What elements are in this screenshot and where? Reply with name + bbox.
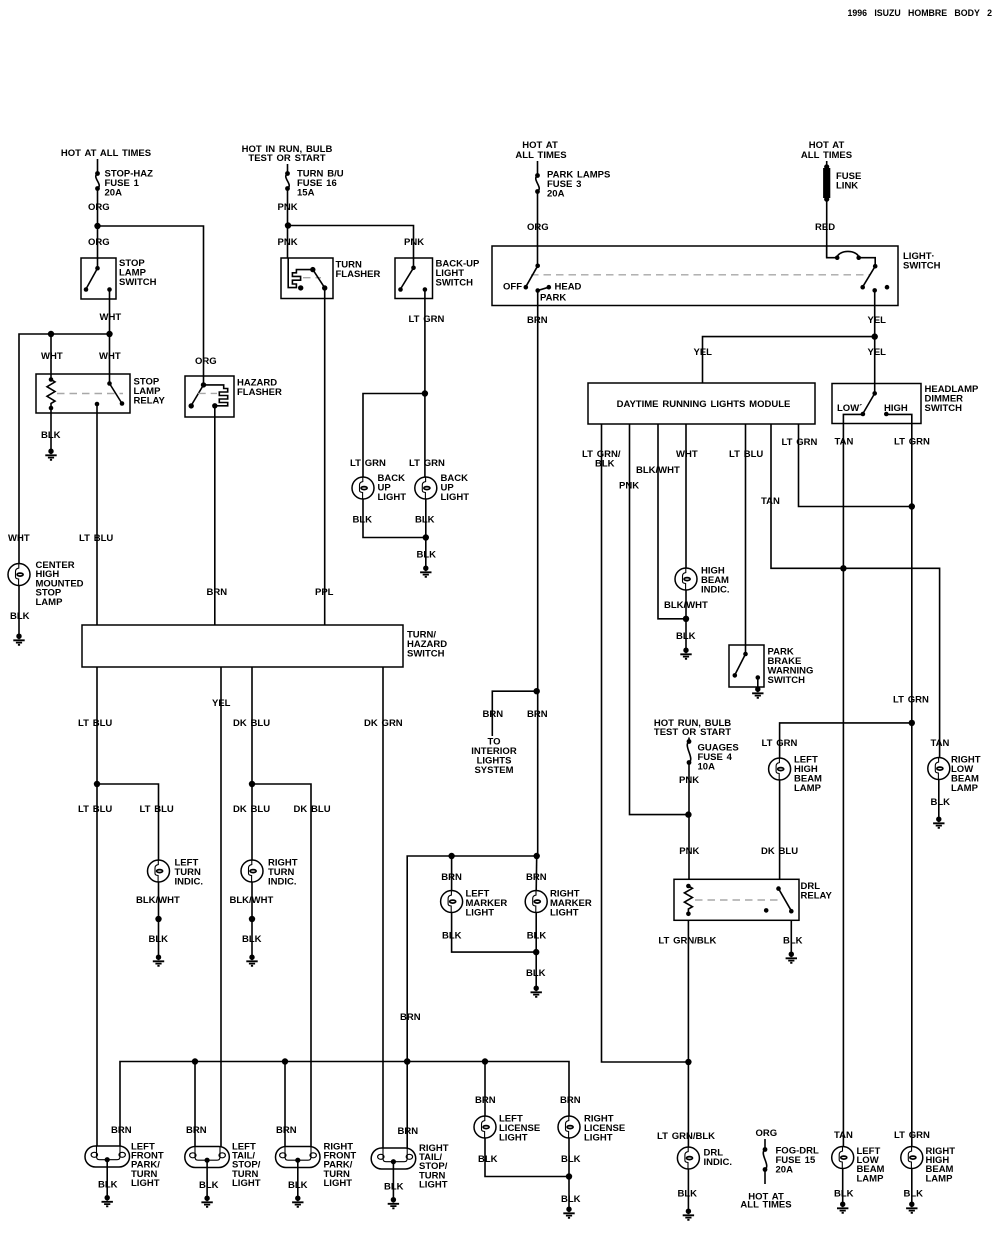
svg-text:ALL TIMES: ALL TIMES <box>801 150 852 161</box>
wire ORG <box>97 189 99 269</box>
wire BLK DRL indicator <box>687 1169 689 1209</box>
svg-text:BRN: BRN <box>526 872 547 883</box>
node junction LT GRN (high beam tee) <box>909 720 915 726</box>
svg-text:DK BLU: DK BLU <box>233 804 270 815</box>
svg-text:LT GRN: LT GRN <box>762 738 798 749</box>
svg-text:1996 ISUZU HOMBRE BODY 2: 1996 ISUZU HOMBRE BODY 2 <box>847 8 992 18</box>
svg-text:OFF: OFF <box>503 282 522 293</box>
svg-text:BLK: BLK <box>288 1180 308 1191</box>
svg-text:ORG: ORG <box>88 237 110 248</box>
svg-text:BLK: BLK <box>561 1194 581 1205</box>
svg-text:SWITCH: SWITCH <box>407 649 445 660</box>
svg-text:LIGHT: LIGHT <box>324 1178 353 1189</box>
svg-text:BRN: BRN <box>527 709 548 720</box>
relay K1 stop lamp relay <box>36 374 130 413</box>
svg-text:RELAY: RELAY <box>801 891 833 902</box>
svg-text:BLK: BLK <box>417 550 437 561</box>
wire BRN right marker <box>535 856 538 891</box>
svg-text:BRN: BRN <box>527 315 548 326</box>
svg-text:BLK: BLK <box>41 430 61 441</box>
wire DK GRN <box>382 667 384 1148</box>
svg-text:LT GRN: LT GRN <box>893 695 929 706</box>
wire WHT <box>109 290 111 335</box>
svg-text:FLASHER: FLASHER <box>336 269 381 280</box>
svg-text:BRN: BRN <box>276 1125 297 1136</box>
svg-text:DK BLU: DK BLU <box>761 846 798 857</box>
svg-text:BLK: BLK <box>10 611 30 622</box>
svg-text:HEAD: HEAD <box>555 282 582 293</box>
svg-text:BRN: BRN <box>475 1095 496 1106</box>
svg-text:LAMP: LAMP <box>926 1173 954 1184</box>
node junction TAN <box>840 565 846 571</box>
svg-text:LIGHT: LIGHT <box>232 1178 261 1189</box>
svg-text:TAN: TAN <box>834 1130 853 1141</box>
lamp left turn indicator <box>148 860 170 882</box>
svg-text:BLK: BLK <box>442 931 462 942</box>
wire BLK right license <box>568 1138 570 1207</box>
wire TAN dimmer low output <box>842 424 844 1148</box>
svg-text:DAYTIME RUNNING LIGHTS MODULE: DAYTIME RUNNING LIGHTS MODULE <box>617 399 791 410</box>
svg-text:LIGHT: LIGHT <box>441 492 470 503</box>
wire RED <box>826 199 828 258</box>
svg-text:PNK: PNK <box>679 775 699 786</box>
wire BRN to interior lights system <box>492 691 536 736</box>
node junction YEL <box>872 333 878 339</box>
svg-text:WHT: WHT <box>8 533 30 544</box>
ground (stop lamp relay) <box>45 449 56 460</box>
svg-text:BLK: BLK <box>931 797 951 808</box>
lamp right turn indicator <box>241 860 263 882</box>
ground (right high beam) <box>906 1202 917 1213</box>
wire PNK to DRL relay <box>688 763 690 880</box>
svg-text:LT BLU: LT BLU <box>79 533 113 544</box>
wire LT GRN module pin 7 <box>799 424 913 507</box>
svg-text:SWITCH: SWITCH <box>768 675 806 686</box>
lamp left marker light <box>441 891 463 913</box>
svg-text:RELAY: RELAY <box>134 396 166 407</box>
svg-text:YEL: YEL <box>868 347 887 358</box>
svg-text:WHT: WHT <box>100 312 122 323</box>
wire BLK left marker <box>452 912 537 952</box>
lamp right marker light <box>525 891 547 913</box>
svg-text:TAN: TAN <box>835 437 854 448</box>
svg-text:10A: 10A <box>698 762 716 773</box>
node junction <box>155 916 161 922</box>
wire branch to left back-up light <box>363 394 425 478</box>
svg-text:DK BLU: DK BLU <box>294 804 331 815</box>
svg-text:BLK: BLK <box>526 968 546 979</box>
wire BRN hazard output <box>214 406 216 625</box>
wire LT BLU left turn <box>96 667 98 1147</box>
svg-text:BLK: BLK <box>834 1189 854 1200</box>
svg-text:BLK/WHT: BLK/WHT <box>636 465 680 476</box>
svg-text:SWITCH: SWITCH <box>119 277 157 288</box>
wire LT GRN <box>424 290 426 478</box>
wire WHT module pin 4 <box>685 424 687 568</box>
svg-text:LT GRN/BLK: LT GRN/BLK <box>658 936 716 947</box>
node junction BRN bottom <box>404 1058 410 1064</box>
node junction BLK <box>683 616 689 622</box>
wire BLK right high beam <box>911 1168 913 1202</box>
svg-text:BLK: BLK <box>783 936 803 947</box>
headlamp dimmer switch SW5 <box>832 384 921 424</box>
svg-text:BLK: BLK <box>478 1154 498 1165</box>
node junction BRN rail 2 <box>282 1058 288 1064</box>
wire PPL turn flasher output <box>324 288 326 625</box>
svg-text:PPL: PPL <box>315 587 334 598</box>
svg-text:LIGHT: LIGHT <box>419 1179 448 1190</box>
wire BLK/WHT left indicator <box>158 882 160 955</box>
node junction BRN (marker tee) <box>534 853 540 859</box>
wire YEL to DRL module <box>703 337 875 383</box>
svg-text:YEL: YEL <box>212 698 231 709</box>
svg-text:ORG: ORG <box>756 1128 778 1139</box>
wire BRN to front lamps <box>407 856 537 1148</box>
svg-text:LIGHT: LIGHT <box>499 1133 528 1144</box>
wire BLK <box>18 585 20 634</box>
svg-text:BLK: BLK <box>384 1182 404 1193</box>
node junction BRN rail 3 <box>404 1058 410 1064</box>
lamp left tail/stop/turn light <box>185 1147 230 1168</box>
node junction BRN rail 1 <box>192 1058 198 1064</box>
svg-text:LT GRN: LT GRN <box>894 437 930 448</box>
svg-text:FLASHER: FLASHER <box>237 387 282 398</box>
svg-text:BLK: BLK <box>561 1154 581 1165</box>
relay K2 DRL relay <box>674 879 799 920</box>
node junction WHT <box>48 331 54 337</box>
svg-text:YEL: YEL <box>694 347 713 358</box>
svg-text:BLK/WHT: BLK/WHT <box>136 895 180 906</box>
lamp right tail/stop/turn light <box>371 1148 416 1169</box>
svg-text:LIGHT: LIGHT <box>378 492 407 503</box>
svg-text:BLK: BLK <box>149 934 169 945</box>
wire LT BLU module pin 5 <box>745 424 747 654</box>
wire YEL light switch head output <box>874 290 876 383</box>
node junction BRN left marker <box>448 853 454 859</box>
ground (back-up lights) <box>420 566 431 577</box>
wire DK BLU left high beam to relay <box>779 779 781 879</box>
ground (left turn indicator) <box>153 955 164 966</box>
light switch park/head contacts <box>535 264 540 269</box>
svg-text:LINK: LINK <box>836 181 858 192</box>
svg-text:YEL: YEL <box>868 315 887 326</box>
svg-text:PNK: PNK <box>619 481 639 492</box>
svg-text:TAN: TAN <box>931 738 950 749</box>
svg-text:SWITCH: SWITCH <box>903 261 941 272</box>
wire <box>537 161 539 175</box>
ground (DRL relay) <box>786 952 797 963</box>
ground (DRL indicator) <box>683 1209 694 1220</box>
svg-text:LT BLU: LT BLU <box>78 718 112 729</box>
svg-text:SYSTEM: SYSTEM <box>474 765 513 776</box>
svg-text:INDIC.: INDIC. <box>704 1157 733 1168</box>
lamp right license light <box>558 1116 580 1138</box>
wire YEL <box>220 667 222 1147</box>
wire BLK left license <box>485 1138 569 1177</box>
light switch head contacts <box>827 246 838 258</box>
wire BLK DRL relay ground <box>790 920 792 952</box>
svg-text:SWITCH: SWITCH <box>925 403 963 414</box>
lamp left high beam lamp <box>769 758 791 780</box>
fuse F4 GUAGES 10A <box>687 739 692 744</box>
svg-text:BRN: BRN <box>398 1126 419 1137</box>
svg-text:BLK: BLK <box>353 515 373 526</box>
fuse link <box>826 161 828 168</box>
lamp left back-up light <box>352 477 374 499</box>
node junction BLK markers <box>533 949 539 955</box>
svg-text:DK GRN: DK GRN <box>364 718 403 729</box>
wire dashed actuator <box>531 274 870 276</box>
svg-text:TEST OR START: TEST OR START <box>248 153 325 164</box>
svg-text:WHT: WHT <box>676 449 698 460</box>
wire branch to left turn indicator <box>97 784 159 860</box>
wire LT GRN/BLK module pin 1 <box>602 424 689 1062</box>
svg-text:20A: 20A <box>547 189 565 200</box>
fuse F16 TURN B/U 15A <box>285 171 290 176</box>
node junction PNK <box>685 811 691 817</box>
svg-text:BLK/WHT: BLK/WHT <box>664 600 708 611</box>
wire BLK/WHT below indicator <box>685 590 687 648</box>
wire BLK left <box>363 499 426 538</box>
wire LT GRN to left high beam <box>780 723 912 758</box>
node junction LT GRN <box>422 390 428 396</box>
module U4 daytime running lights module <box>588 383 815 424</box>
svg-text:15A: 15A <box>297 188 315 199</box>
svg-text:BRN: BRN <box>207 587 228 598</box>
node junction BRN rail 4 <box>482 1058 488 1064</box>
fuse F3 PARK LAMPS 20A <box>535 173 540 178</box>
svg-text:LAMP: LAMP <box>36 597 64 608</box>
node junction LT GRN/BLK <box>685 1059 691 1065</box>
svg-text:PNK: PNK <box>404 237 424 248</box>
svg-text:ALL TIMES: ALL TIMES <box>740 1200 791 1211</box>
node junction DK BLU <box>249 781 255 787</box>
svg-text:BLK: BLK <box>242 934 262 945</box>
svg-text:LAMP: LAMP <box>951 783 979 794</box>
svg-text:BLK: BLK <box>199 1180 219 1191</box>
svg-text:20A: 20A <box>105 188 123 199</box>
turn/hazard switch SW3 <box>82 625 403 667</box>
svg-text:BRN: BRN <box>483 709 504 720</box>
svg-text:BLK: BLK <box>678 1189 698 1200</box>
svg-text:PNK: PNK <box>278 237 298 248</box>
svg-text:ORG: ORG <box>527 222 549 233</box>
node junction PNK <box>285 222 291 228</box>
node junction BRN (interior lights tee) <box>534 688 540 694</box>
svg-text:INDIC.: INDIC. <box>701 585 730 596</box>
node junction <box>249 916 255 922</box>
svg-text:LT GRN: LT GRN <box>409 458 445 469</box>
ground (right turn indicator) <box>246 955 257 966</box>
node junction BLK <box>423 534 429 540</box>
node junction ORG <box>94 223 100 229</box>
wire PNK to back-up switch <box>288 226 414 259</box>
wire BRN light switch park output <box>537 291 539 857</box>
svg-text:LT GRN: LT GRN <box>894 1130 930 1141</box>
lamp left license light <box>474 1116 496 1138</box>
svg-text:ALL TIMES: ALL TIMES <box>515 150 566 161</box>
wire ORG to hazard flasher <box>98 226 204 385</box>
wire BRN to right front <box>284 1062 286 1148</box>
ground (CHMSL) <box>13 634 24 645</box>
svg-text:LT BLU: LT BLU <box>729 449 763 460</box>
lamp right back-up light <box>415 477 437 499</box>
svg-text:LIGHT: LIGHT <box>131 1178 160 1189</box>
svg-text:BRN: BRN <box>111 1125 132 1136</box>
svg-text:BRN: BRN <box>186 1125 207 1136</box>
wire <box>688 738 690 742</box>
wire BLK/WHT right indicator <box>251 882 253 955</box>
wire <box>287 164 289 173</box>
node junction WHT 2 <box>106 331 112 337</box>
svg-text:BLK/WHT: BLK/WHT <box>230 895 274 906</box>
svg-text:PARK: PARK <box>540 293 566 304</box>
wire PNK <box>287 189 289 259</box>
wire BLK/WHT module pin 3 <box>658 424 686 619</box>
svg-text:SWITCH: SWITCH <box>436 278 474 289</box>
svg-text:TAN: TAN <box>761 496 780 507</box>
ground (marker lights) <box>531 986 542 997</box>
wire BRN to left tail <box>194 1062 196 1148</box>
ground (left low beam) <box>837 1202 848 1213</box>
wire ORG <box>537 192 539 266</box>
svg-text:HOT AT ALL TIMES: HOT AT ALL TIMES <box>61 148 151 159</box>
wire BLK right <box>425 499 427 566</box>
svg-text:WHT: WHT <box>99 351 121 362</box>
back-up light switch SW2 <box>395 258 433 299</box>
svg-text:LT GRN: LT GRN <box>350 458 386 469</box>
wire BRN left marker <box>451 856 453 891</box>
svg-text:RED: RED <box>815 222 835 233</box>
node junction LT BLU <box>94 781 100 787</box>
wire BRN to left license <box>484 1062 486 1117</box>
svg-text:BLK: BLK <box>415 515 435 526</box>
ground (right low beam) <box>933 817 944 828</box>
wire <box>50 334 52 379</box>
svg-text:BRN: BRN <box>560 1095 581 1106</box>
lamp left front park/turn light <box>85 1146 130 1167</box>
node junction LT GRN (module/dimmer) <box>909 503 915 509</box>
wire BLK right low beam <box>938 779 940 817</box>
svg-text:LOW´: LOW´ <box>837 403 862 414</box>
svg-text:LIGHT: LIGHT <box>466 908 495 919</box>
svg-text:LAMP: LAMP <box>857 1173 885 1184</box>
wire BLK to ground <box>50 408 52 449</box>
svg-text:PNK: PNK <box>278 202 298 213</box>
svg-text:LIGHT: LIGHT <box>584 1133 613 1144</box>
svg-text:20A: 20A <box>776 1165 794 1176</box>
wire BLK right marker <box>535 912 537 986</box>
svg-text:BLK: BLK <box>904 1189 924 1200</box>
svg-text:DK BLU: DK BLU <box>233 718 270 729</box>
wire BLK left low beam <box>842 1168 844 1202</box>
svg-text:LT GRN: LT GRN <box>782 437 818 448</box>
ground (high beam indicator) <box>680 648 691 659</box>
lamp DRL indicator <box>677 1147 699 1169</box>
light switch SW4 <box>492 246 898 306</box>
svg-text:LT GRN: LT GRN <box>409 314 445 325</box>
svg-text:BRN: BRN <box>400 1012 421 1023</box>
ground (park brake switch) <box>752 687 763 698</box>
lamp right low beam lamp <box>928 758 950 780</box>
wire WHT bus <box>19 334 110 564</box>
node junction BLK license <box>566 1173 572 1179</box>
wire LT GRN/BLK DRL relay output <box>687 920 689 1147</box>
svg-text:LIGHT: LIGHT <box>550 908 579 919</box>
svg-text:INDIC.: INDIC. <box>268 877 297 888</box>
svg-text:BLK: BLK <box>527 931 547 942</box>
svg-text:LAMP: LAMP <box>794 783 822 794</box>
wire BRN bottom rail <box>120 1062 569 1147</box>
svg-text:LT BLU: LT BLU <box>140 804 174 815</box>
lamp center high mounted stop lamp <box>8 564 30 586</box>
fuse F1 STOP-HAZ 20A <box>95 171 100 176</box>
ground (license lights) <box>563 1207 574 1218</box>
svg-text:PNK: PNK <box>679 846 699 857</box>
lamp high beam indicator <box>675 568 697 590</box>
wire PNK module pin 2 <box>630 424 689 815</box>
svg-text:BLK: BLK <box>98 1180 118 1191</box>
wire branch DK BLU to right front lamp <box>252 784 311 1147</box>
svg-text:ORG: ORG <box>195 356 217 367</box>
lamp right front park/turn light <box>276 1147 321 1168</box>
svg-text:LT GRN/BLK: LT GRN/BLK <box>657 1131 715 1142</box>
svg-text:BLK: BLK <box>676 631 696 642</box>
wire TAN module pin 6 <box>771 424 940 758</box>
svg-text:ORG: ORG <box>88 202 110 213</box>
svg-text:INDIC.: INDIC. <box>175 877 204 888</box>
wire LT BLU relay output <box>96 404 98 625</box>
svg-text:TEST OR START: TEST OR START <box>654 727 731 738</box>
svg-text:HIGH: HIGH <box>884 403 908 414</box>
wire LT GRN dimmer high output <box>911 424 913 1148</box>
park brake warning switch SW6 <box>729 645 764 687</box>
stop lamp switch SW1 <box>81 258 116 299</box>
wire <box>97 159 99 173</box>
svg-text:LT BLU: LT BLU <box>78 804 112 815</box>
svg-text:WHT: WHT <box>41 351 63 362</box>
svg-text:BLK: BLK <box>595 459 615 470</box>
turn flasher U2 <box>281 258 333 299</box>
wire DK BLU <box>251 667 253 860</box>
svg-text:BRN: BRN <box>441 872 462 883</box>
